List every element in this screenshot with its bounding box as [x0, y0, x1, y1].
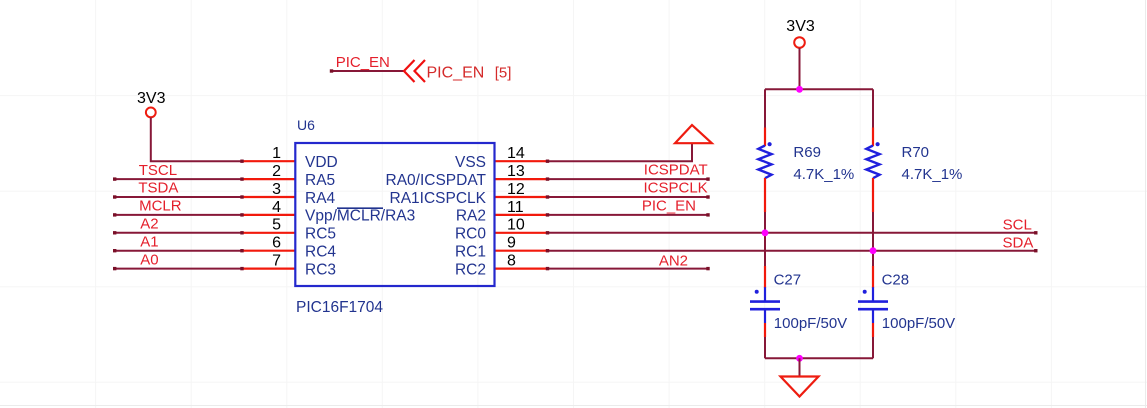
op-amp U6 body — [295, 143, 494, 286]
node junction SCL R69 — [762, 229, 769, 236]
wire pin14 to power arrow — [548, 144, 693, 162]
pin 7 — [242, 268, 295, 270]
pin 10 — [495, 232, 548, 234]
svg-text:Vpp/MCLR/RA3: Vpp/MCLR/RA3 — [305, 208, 415, 225]
wire SDA — [548, 250, 1036, 252]
svg-text:MCLR: MCLR — [139, 198, 182, 215]
off-page connector chevrons — [404, 60, 425, 82]
pin 12 — [495, 196, 548, 198]
svg-text:TSDA: TSDA — [138, 180, 178, 197]
pin 2 — [242, 178, 295, 180]
node junction ground — [796, 355, 803, 362]
wire AN2 — [548, 268, 709, 270]
wire branch R70 middle — [872, 212, 874, 266]
wire bottom rail — [765, 357, 873, 359]
wire PIC_EN top — [332, 70, 404, 72]
svg-text:RC3: RC3 — [305, 261, 336, 278]
svg-text:C27: C27 — [774, 272, 802, 289]
svg-text:RC1: RC1 — [455, 244, 486, 261]
svg-text:100pF/50V: 100pF/50V — [774, 315, 847, 332]
svg-text:6: 6 — [272, 235, 281, 252]
svg-text:AN2: AN2 — [659, 253, 688, 270]
svg-text:ICSPDAT: ICSPDAT — [644, 162, 708, 179]
pin 11 — [495, 214, 548, 216]
power symbol 3V3 right — [786, 18, 815, 48]
wire TSDA — [115, 196, 242, 198]
svg-text:A2: A2 — [140, 216, 158, 233]
overline MCLR — [337, 207, 383, 209]
svg-text:3V3: 3V3 — [786, 18, 815, 35]
svg-text:1: 1 — [272, 145, 281, 162]
node junction SDA R70 — [870, 247, 877, 254]
pin 6 — [242, 250, 295, 252]
power symbol 3V3 left — [137, 90, 166, 117]
wire end dots — [113, 69, 1038, 270]
wire 3V3 left to pin 1 — [151, 118, 242, 162]
svg-text:U6: U6 — [297, 117, 315, 133]
pin R70 top — [872, 128, 874, 147]
svg-text:100pF/50V: 100pF/50V — [882, 315, 955, 332]
power arrow VSS — [675, 125, 712, 143]
svg-text:PIC_EN: PIC_EN — [336, 54, 390, 71]
pin C27 bottom — [764, 323, 766, 337]
pin 5 — [242, 232, 295, 234]
wire ICSPDAT — [548, 178, 709, 180]
ground — [781, 377, 819, 397]
svg-text:PIC_EN: PIC_EN — [642, 197, 696, 214]
svg-text:R69: R69 — [793, 144, 821, 161]
wire top rail — [765, 88, 873, 90]
svg-text:[5]: [5] — [495, 65, 512, 82]
pin R69 bottom — [764, 178, 766, 212]
pin 3 — [242, 196, 295, 198]
pin C28 top — [872, 266, 874, 288]
pin R69 top — [764, 128, 766, 147]
svg-text:RA1ICSPCLK: RA1ICSPCLK — [390, 190, 487, 207]
svg-text:4.7K_1%: 4.7K_1% — [902, 166, 963, 183]
svg-text:VSS: VSS — [455, 154, 486, 171]
svg-text:TSCL: TSCL — [139, 162, 177, 179]
pin 9 — [495, 250, 548, 252]
pin R70 bottom — [872, 178, 874, 212]
capacitor C28 — [858, 272, 955, 333]
pin C27 top — [764, 266, 766, 288]
svg-text:8: 8 — [507, 253, 516, 270]
wire ICSPCLK — [548, 196, 709, 198]
wire A0 — [115, 268, 242, 270]
svg-text:14: 14 — [507, 145, 525, 162]
wire A2 — [115, 232, 242, 234]
svg-text:7: 7 — [272, 253, 281, 270]
svg-text:SCL: SCL — [1003, 217, 1032, 234]
pin 14 — [495, 160, 548, 162]
svg-text:R70: R70 — [902, 144, 930, 161]
svg-text:PIC_EN: PIC_EN — [427, 65, 485, 82]
svg-text:SDA: SDA — [1003, 235, 1034, 252]
svg-text:5: 5 — [272, 217, 281, 234]
wire MCLR — [115, 214, 242, 216]
svg-text:RA2: RA2 — [456, 208, 486, 225]
pin 13 — [495, 178, 548, 180]
wire 3V3 right drop — [799, 48, 801, 89]
wire branch R70 upper — [872, 89, 874, 127]
wire PIC_EN pin11 — [548, 214, 709, 216]
svg-text:RA4: RA4 — [305, 190, 336, 207]
svg-text:9: 9 — [507, 235, 516, 252]
svg-text:RC2: RC2 — [455, 261, 486, 278]
wire A1 — [115, 250, 242, 252]
svg-text:RA0/ICSPDAT: RA0/ICSPDAT — [386, 172, 487, 189]
svg-text:3V3: 3V3 — [137, 90, 166, 107]
pin 8 — [495, 268, 548, 270]
svg-text:RC4: RC4 — [305, 244, 336, 261]
wire branch R70 lower — [872, 337, 874, 358]
wire branch R69 upper — [764, 89, 766, 127]
svg-text:A1: A1 — [140, 233, 158, 250]
svg-text:RC0: RC0 — [455, 226, 486, 243]
svg-text:PIC16F1704: PIC16F1704 — [296, 299, 383, 316]
resistor R69 — [758, 142, 854, 183]
pin 4 — [242, 214, 295, 216]
svg-text:RC5: RC5 — [305, 226, 336, 243]
svg-text:4: 4 — [272, 199, 281, 216]
svg-text:11: 11 — [507, 199, 524, 216]
pin C28 bottom — [872, 323, 874, 337]
capacitor C27 — [750, 272, 847, 333]
node junction top rail — [796, 86, 803, 93]
svg-text:13: 13 — [507, 163, 525, 180]
svg-text:12: 12 — [507, 181, 525, 198]
resistor R70 — [866, 142, 962, 183]
wire ground stub — [799, 358, 801, 376]
svg-text:VDD: VDD — [305, 154, 338, 171]
svg-text:10: 10 — [507, 217, 525, 234]
svg-text:RA5: RA5 — [305, 172, 335, 189]
svg-text:C28: C28 — [882, 272, 910, 289]
wire branch R69 middle — [764, 212, 766, 266]
wire SCL — [548, 232, 1036, 234]
wire branch R69 lower — [764, 337, 766, 358]
pin 1 — [242, 160, 295, 162]
wire TSCL — [115, 178, 242, 180]
svg-text:A0: A0 — [140, 251, 158, 268]
svg-text:3: 3 — [272, 181, 281, 198]
svg-text:ICSPCLK: ICSPCLK — [643, 179, 707, 196]
svg-text:2: 2 — [272, 163, 281, 180]
svg-text:4.7K_1%: 4.7K_1% — [793, 166, 854, 183]
